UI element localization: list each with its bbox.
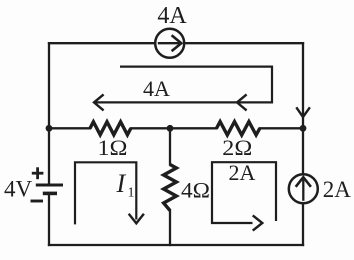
wire center vertical lower [169, 211, 171, 246]
current source I4A arrow [158, 35, 182, 51]
current source I2A circle [289, 174, 318, 203]
svg-text:2Ω: 2Ω [222, 135, 252, 160]
annotation 4A loop end arrowhead [94, 94, 104, 110]
wire left vertical lower [48, 195, 50, 245]
wire left vertical upper [48, 43, 50, 184]
annotation 4A loop mid arrowhead [237, 94, 247, 110]
svg-text:4V: 4V [4, 177, 33, 202]
svg-text:2A: 2A [229, 160, 256, 185]
mesh loop I1 [75, 162, 136, 224]
resistor R2 2ohm [217, 122, 260, 135]
svg-text:4A: 4A [157, 3, 187, 29]
node B center [167, 125, 174, 132]
wire right vertical lower [302, 204, 304, 245]
arrow down on right branch [296, 107, 310, 117]
svg-text:4A: 4A [143, 76, 170, 101]
node A left [46, 125, 53, 132]
battery plus sign [32, 167, 44, 179]
svg-text:I: I [116, 169, 127, 198]
svg-text:1: 1 [128, 186, 135, 201]
svg-text:2A: 2A [323, 177, 352, 202]
current source I2A arrow [296, 177, 311, 201]
svg-text:4Ω: 4Ω [181, 178, 210, 203]
wire center vertical upper [169, 128, 171, 164]
svg-text:1Ω: 1Ω [98, 135, 128, 160]
battery minus sign [31, 200, 44, 203]
annotation 4A loop path [94, 67, 272, 103]
wire middle right segment [260, 127, 303, 129]
wire right vertical upper [302, 43, 304, 174]
resistor R1 1ohm [90, 122, 131, 135]
current source I4A circle [155, 29, 184, 58]
mesh loop I1 arrowhead [129, 214, 144, 224]
battery V1 4V [36, 185, 63, 193]
wire top left segment [49, 42, 155, 44]
wire middle left segment [49, 127, 90, 129]
node C right [300, 125, 307, 132]
wire top right segment [185, 42, 303, 44]
resistor R3 4ohm vertical [164, 165, 177, 211]
wire bottom [49, 244, 303, 246]
mesh loop 2A [212, 162, 276, 223]
wire middle center segment [131, 127, 217, 129]
mesh loop 2A arrowhead [253, 215, 263, 230]
